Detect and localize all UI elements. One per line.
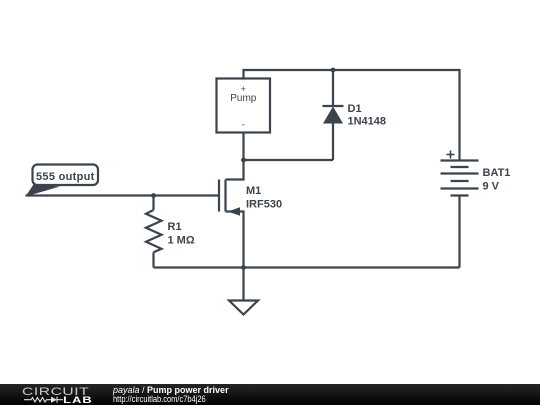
wire top rail pump to battery bbox=[244, 70, 460, 161]
svg-text:LAB: LAB bbox=[63, 395, 93, 405]
pump box bbox=[217, 79, 271, 133]
node junction at diode top bbox=[331, 68, 336, 73]
ground bbox=[229, 268, 258, 315]
svg-text:BAT1: BAT1 bbox=[483, 167, 511, 179]
node junction pump/diode/drain bbox=[241, 158, 246, 163]
flag 555 output bbox=[26, 165, 99, 197]
svg-text:555 output: 555 output bbox=[36, 171, 95, 183]
wire pump bottom lead bbox=[242, 133, 244, 161]
battery BAT1 bbox=[441, 151, 479, 196]
wire bottom rail bbox=[154, 266, 460, 268]
svg-text:M1: M1 bbox=[246, 185, 261, 197]
svg-text:9 V: 9 V bbox=[483, 181, 500, 193]
wire battery bottom lead bbox=[458, 196, 460, 268]
footer bar bbox=[0, 384, 540, 405]
svg-text:D1: D1 bbox=[348, 103, 362, 115]
node junction ground bbox=[241, 265, 246, 270]
svg-text:-: - bbox=[242, 120, 245, 130]
svg-text:R1: R1 bbox=[168, 221, 182, 233]
credit line 2 bbox=[113, 394, 206, 404]
resistor R1 bbox=[146, 196, 162, 268]
wire junction to diode anode bbox=[244, 159, 334, 161]
wire gate net 555 output bbox=[26, 194, 219, 196]
node junction gate/R1 bbox=[151, 193, 156, 198]
CircuitLab logo bbox=[0, 384, 110, 405]
svg-text:IRF530: IRF530 bbox=[246, 199, 282, 211]
svg-text:1N4148: 1N4148 bbox=[348, 116, 387, 128]
svg-text:1 MΩ: 1 MΩ bbox=[168, 235, 195, 247]
svg-text:Pump: Pump bbox=[230, 93, 257, 104]
credit line 1 bbox=[113, 385, 229, 395]
transistor M1 bbox=[219, 160, 244, 268]
diode D1 bbox=[323, 70, 344, 160]
